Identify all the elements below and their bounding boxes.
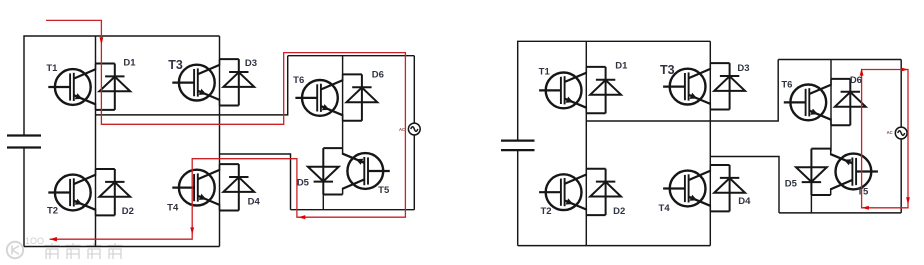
diode D6 [343, 74, 378, 120]
svg-text:D4: D4 [738, 196, 751, 207]
wire leg 1 right circuit (T1/T2) [585, 41, 587, 245]
transistor T6 right [784, 79, 831, 125]
svg-text:D4: D4 [248, 197, 261, 208]
svg-text:D6: D6 [850, 75, 862, 86]
svg-text:T1: T1 [539, 67, 551, 78]
wire output B: leg2 midpoint to bypass box [220, 154, 291, 210]
svg-text:T6: T6 [293, 75, 304, 86]
svg-text:D3: D3 [737, 63, 749, 74]
diode D2 [96, 169, 131, 215]
diode D6 right [831, 79, 866, 125]
wire bypass box top edge right [778, 59, 901, 61]
wire DC bus top/left rail/bottom (right circuit) [518, 41, 711, 245]
transistor T5 right [831, 149, 878, 195]
wire red current path (left circuit) [46, 20, 405, 239]
transistor T1 right [539, 67, 586, 113]
AC source V1 [408, 123, 420, 135]
diode D4 [220, 164, 255, 210]
transistor T1 [48, 63, 95, 109]
node red arrow right on top of loop [901, 68, 908, 72]
svg-text:T3: T3 [660, 63, 675, 77]
diode D2 right [586, 169, 621, 215]
node red arrow down right side of loop [906, 197, 910, 204]
svg-text:D1: D1 [123, 57, 136, 68]
node red arrow down through T4 [190, 227, 194, 234]
svg-text:D5: D5 [785, 178, 798, 189]
wire output B right circuit [710, 157, 779, 213]
svg-text:D2: D2 [613, 206, 625, 217]
svg-text:D6: D6 [372, 70, 384, 81]
node red arrow up through D6 right [860, 68, 864, 75]
node red arrow left at path end [50, 237, 57, 241]
svg-text:T1: T1 [46, 63, 58, 74]
svg-text:AC: AC [399, 127, 405, 132]
wire bypass center leg right [830, 60, 832, 152]
svg-text:T5: T5 [378, 185, 390, 196]
wire bypass center leg [342, 56, 344, 148]
wire DC bus top/left rail/bottom (left circuit) [24, 36, 220, 247]
svg-text:T2: T2 [47, 206, 58, 217]
svg-text:T4: T4 [659, 203, 671, 214]
svg-text:D1: D1 [615, 60, 628, 71]
diode D1 [96, 63, 131, 109]
transistor T4 right [663, 165, 710, 211]
node red arrow left on bottom of loop [862, 206, 869, 210]
diode D5 [308, 148, 343, 194]
wire bypass box bottom edge right [779, 212, 901, 214]
node red arrow down through D1 [100, 37, 104, 44]
transistor T3 [172, 59, 219, 105]
svg-text:T2: T2 [540, 206, 551, 217]
diode D4 right [710, 165, 745, 211]
transistor T6 [295, 74, 342, 120]
svg-text:T3: T3 [168, 58, 183, 72]
svg-text:D5: D5 [297, 177, 310, 188]
diode D1 right [586, 67, 621, 113]
wire bypass box right edge right [900, 60, 902, 213]
transistor T3 right [663, 63, 710, 109]
diode D3 [220, 59, 255, 105]
wire D5 cathode to box bottom right [810, 195, 812, 213]
wire D5 cathode to box bottom [322, 195, 324, 210]
svg-text:D2: D2 [122, 206, 134, 217]
svg-text:T5: T5 [857, 186, 869, 197]
diode D3 right [710, 63, 745, 109]
wire bypass box bottom edge [291, 209, 415, 211]
wire leg 2 (T3/T4) [219, 36, 221, 247]
wire leg 1 (T1/T2) [95, 36, 97, 247]
wire output A right circuit [586, 60, 778, 122]
watermark characters [45, 243, 123, 259]
wire bypass box right edge (AC branch) [413, 56, 415, 210]
transistor T5 [343, 148, 390, 194]
transistor T4 [172, 164, 219, 210]
wire leg 2 right circuit (T3/T4) [709, 41, 711, 245]
capacitor C1 [7, 136, 41, 148]
svg-text:1OO: 1OO [25, 236, 44, 246]
wire output A: leg1 midpoint to bypass box [96, 56, 288, 115]
AC source V2 [895, 127, 907, 139]
wire bypass box top edge [288, 55, 415, 57]
svg-text:T6: T6 [781, 79, 792, 90]
node red arrow left on bottom return [298, 215, 305, 219]
watermark logo circle [7, 242, 23, 258]
transistor T2 right [539, 169, 586, 215]
svg-text:T4: T4 [167, 203, 179, 214]
capacitor C2 [501, 141, 535, 151]
wire red freewheeling loop (right circuit) [862, 70, 908, 208]
svg-text:AC: AC [887, 130, 893, 135]
svg-text:D3: D3 [245, 58, 257, 69]
diode D5 right [796, 149, 831, 195]
transistor T2 [48, 169, 95, 215]
